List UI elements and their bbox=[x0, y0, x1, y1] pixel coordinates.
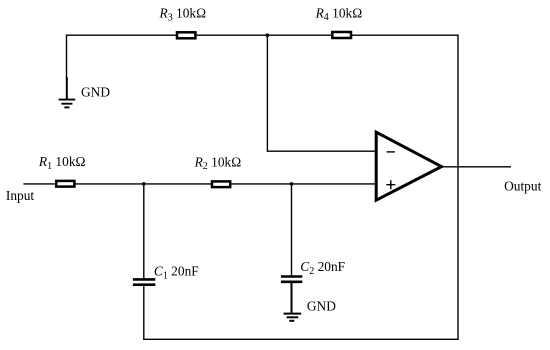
capacitor C2 bbox=[281, 277, 302, 282]
wire C1 to bottom rail bbox=[143, 286, 145, 339]
node B junction (R2/C2/+input) bbox=[290, 182, 294, 186]
node A junction (R1/R2/C1) bbox=[142, 182, 146, 186]
wire bottom feedback rail bbox=[143, 338, 459, 340]
resistor R1 bbox=[56, 181, 74, 187]
wire C1 drop from node A bbox=[143, 184, 145, 278]
wire divider tap down to inverting input bbox=[267, 35, 375, 151]
resistor R3 bbox=[177, 32, 195, 38]
op-amp U1 bbox=[376, 132, 441, 200]
svg-text:R4 10kΩ: R4 10kΩ bbox=[315, 5, 363, 23]
svg-text:Input: Input bbox=[6, 188, 35, 203]
svg-text:GND: GND bbox=[307, 298, 336, 313]
resistor R4 bbox=[332, 32, 351, 38]
wire C2 drop from node B bbox=[291, 184, 293, 276]
wire top horizontal (GND to right rail through R3, R4) bbox=[67, 34, 459, 36]
ground stem G1 bbox=[66, 77, 68, 100]
node junction (R3/R4 divider tap) bbox=[266, 33, 270, 37]
wire main input line bbox=[23, 183, 375, 185]
wire output bbox=[442, 166, 512, 168]
ground G2 bbox=[284, 314, 302, 321]
ground stem G2 bbox=[291, 283, 293, 314]
wire left ground drop bbox=[66, 35, 68, 79]
ground G1 bbox=[59, 100, 76, 108]
svg-text:R3 10kΩ: R3 10kΩ bbox=[159, 6, 207, 24]
svg-text:C1 20nF: C1 20nF bbox=[154, 264, 199, 282]
op-amp plus sign bbox=[386, 180, 395, 189]
svg-text:R1 10kΩ: R1 10kΩ bbox=[38, 154, 86, 172]
resistor R2 bbox=[212, 181, 230, 187]
wire right feedback rail (vertical) bbox=[457, 35, 459, 340]
capacitor C1 bbox=[133, 279, 155, 284]
svg-text:Output: Output bbox=[504, 178, 541, 193]
op-amp minus sign bbox=[387, 151, 395, 153]
svg-text:R2 10kΩ: R2 10kΩ bbox=[194, 154, 242, 172]
svg-text:C2 20nF: C2 20nF bbox=[300, 259, 345, 277]
svg-text:GND: GND bbox=[81, 85, 110, 100]
